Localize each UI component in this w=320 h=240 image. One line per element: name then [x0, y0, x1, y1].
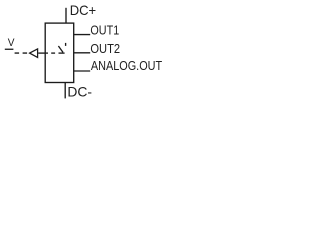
wire ANALOG.OUT stub [74, 70, 91, 72]
switch S1 base [59, 52, 65, 54]
wire dashed segment inside box [51, 52, 55, 54]
arrowhead triangle (direction of action) [30, 49, 38, 58]
wire OUT1 stub [74, 34, 91, 36]
wire DC- lead [64, 83, 66, 99]
device box U1 [45, 23, 73, 82]
label OUT1 [90, 23, 119, 38]
wire DC+ lead [65, 8, 67, 23]
svg-text:V: V [8, 36, 15, 48]
label ANALOG.OUT [91, 58, 162, 73]
svg-text:ANALOG.OUT: ANALOG.OUT [91, 58, 162, 73]
switch S1 fixed contact tick [65, 43, 67, 46]
wire OUT2 stub [74, 52, 91, 54]
svg-text:OUT2: OUT2 [90, 41, 120, 56]
label DC+ [70, 3, 97, 18]
label V (input voltage) [8, 36, 15, 48]
svg-text:DC+: DC+ [70, 3, 97, 18]
wire triangle to box [38, 52, 48, 54]
svg-text:DC-: DC- [67, 85, 92, 100]
V underline [5, 48, 14, 50]
wire dashed actuation line left [15, 52, 29, 54]
label DC- [67, 85, 92, 100]
svg-text:OUT1: OUT1 [90, 23, 119, 38]
label OUT2 [90, 41, 120, 56]
switch S1 blade [58, 46, 63, 52]
